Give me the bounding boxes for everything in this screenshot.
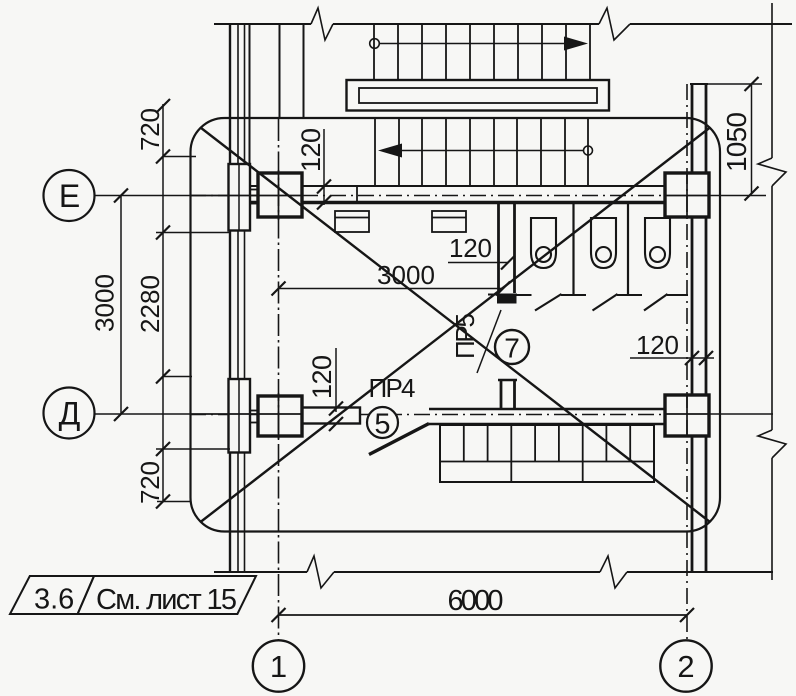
door leaf [369, 424, 429, 455]
left inner dimension line (720/2280/720) [156, 99, 230, 509]
svg-text:720: 720 [135, 461, 165, 504]
stall door slashes [535, 294, 668, 311]
svg-text:2280: 2280 [135, 275, 165, 333]
washbasin 2 [432, 211, 466, 232]
columns [258, 173, 302, 217]
dim 3000 horizontal (room) [272, 282, 511, 296]
svg-text:1050: 1050 [721, 112, 752, 172]
upper flight direction arrow [370, 37, 588, 51]
svg-text:3000: 3000 [90, 274, 120, 332]
right broken vertical line [758, 3, 786, 580]
callout circle 5 [367, 407, 398, 438]
svg-text:120: 120 [307, 355, 337, 399]
svg-text:6000: 6000 [448, 585, 504, 617]
svg-text:1: 1 [270, 649, 287, 684]
svg-text:Д: Д [59, 396, 81, 432]
axis circle D [44, 388, 95, 439]
svg-text:См. лист 15: См. лист 15 [96, 584, 237, 616]
washbasin 1 [335, 211, 369, 232]
left outer dimension line (3000) [114, 189, 128, 422]
top wall line with breaks [214, 8, 792, 40]
axis circle E [44, 170, 95, 221]
remodel zone rounded rectangle [191, 118, 721, 532]
reference tag parallelograms [10, 576, 256, 614]
demolition cross diagonals [201, 128, 711, 523]
dim 1050 right [708, 77, 762, 201]
stair landing handrail [347, 80, 610, 111]
axis circle 2 [660, 640, 711, 691]
PR5 leader line [477, 310, 501, 373]
svg-text:120: 120 [636, 330, 679, 360]
WC fixtures [531, 218, 556, 268]
svg-text:720: 720 [135, 108, 165, 151]
lintel PR4 over door [302, 408, 360, 424]
WC partition stub (lower) [498, 380, 517, 409]
svg-text:120: 120 [449, 233, 492, 263]
callout circle 7 [495, 330, 529, 364]
dim 6000 bottom [272, 608, 695, 622]
svg-text:Е: Е [59, 178, 80, 214]
svg-text:7: 7 [504, 333, 520, 364]
left wall vertical lines [230, 24, 250, 572]
toilet stall dividers [574, 204, 629, 294]
svg-text:120: 120 [296, 128, 326, 172]
dim 120 at lintel PR4 [329, 348, 343, 431]
stair hall opening verticals [280, 25, 304, 118]
stubs pilaster-column [250, 190, 258, 423]
WC partition wall (upper) [488, 204, 517, 304]
bottom wall line with breaks [214, 556, 773, 588]
wall pilasters on left wall [229, 164, 251, 231]
axis E horizontal line [94, 195, 767, 197]
svg-text:3000: 3000 [377, 260, 435, 290]
wall on axis D (bottom of WC room) [429, 409, 665, 424]
urinal trough grid [440, 425, 654, 482]
lower flight direction arrow [378, 144, 593, 158]
stall front segments [516, 294, 688, 296]
axis 2 vertical dash-dot [686, 84, 688, 640]
dim 120 at right wall [630, 351, 714, 365]
lower stair flight treads [375, 119, 588, 186]
upper stair flight treads [374, 24, 590, 79]
svg-text:3.6: 3.6 [34, 584, 74, 616]
right wall vertical lines [690, 84, 708, 572]
axis circle 1 [253, 640, 304, 691]
svg-text:2: 2 [677, 649, 694, 684]
axis D horizontal line [94, 413, 774, 416]
svg-text:5: 5 [374, 409, 390, 441]
dim 120 at axis E wall [317, 129, 331, 210]
svg-text:ПР5: ПР5 [450, 313, 480, 359]
axis lines visible through columns and pilasters [190, 164, 709, 453]
svg-text:ПР4: ПР4 [369, 373, 416, 403]
wall on axis E (between stair and WC) [247, 185, 690, 204]
dim 120 at WC partition [448, 256, 515, 270]
axis 1 vertical dash-dot [278, 119, 280, 640]
